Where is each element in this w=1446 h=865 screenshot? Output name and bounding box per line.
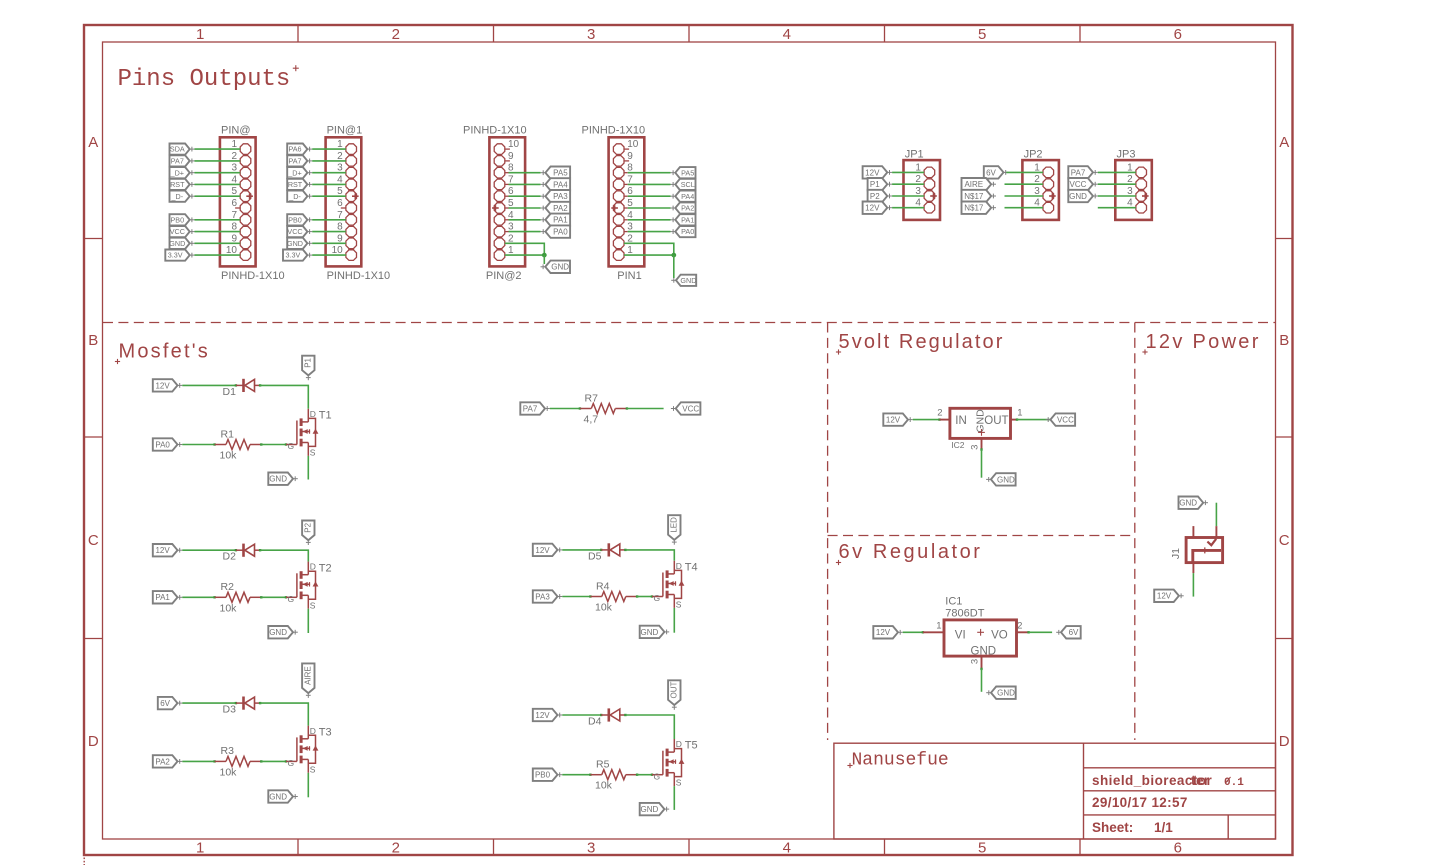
wire 12V to diode D2 <box>182 549 236 551</box>
svg-text:3: 3 <box>587 26 595 43</box>
connector JP2 pin contact dash <box>1045 189 1051 191</box>
net label PA3 at PIN@2 pin 6 <box>545 190 570 202</box>
svg-text:P1: P1 <box>870 180 880 189</box>
connector PIN1 pin circles <box>613 144 624 261</box>
net label 12V at IC1 input <box>873 626 898 638</box>
wire J1 to 12V <box>1192 563 1194 574</box>
connector PIN@2 pin 5 wire cross mark <box>492 207 499 209</box>
connector JP1 pin circles <box>924 167 935 213</box>
title block vertical divider <box>1083 743 1085 839</box>
resistor R4 <box>590 596 601 598</box>
resistor R5 <box>590 774 601 776</box>
svg-text:N$17: N$17 <box>964 204 984 213</box>
svg-text:G: G <box>654 593 661 603</box>
connector JP3 pin circles <box>1136 167 1147 213</box>
net label 12V at T1 drain row <box>153 379 178 391</box>
net label P2 at JP1 pin 3 <box>868 190 888 202</box>
svg-text:AIRE: AIRE <box>304 666 313 685</box>
svg-text:GND: GND <box>269 475 287 484</box>
svg-text:P2: P2 <box>870 192 880 201</box>
dashed section divider vertical left of 5volt regulator <box>827 323 829 741</box>
svg-text:10k: 10k <box>220 602 238 614</box>
net label VCC at IC2 output <box>1050 413 1075 425</box>
wire GND to J1 pin <box>1215 503 1217 526</box>
wire IC2 pin 1 to VCC <box>1011 419 1018 421</box>
diode D5 <box>601 549 609 551</box>
svg-text:T3: T3 <box>319 726 332 738</box>
net label SCL at PIN1 pin 7 <box>675 179 695 190</box>
svg-text:PA5: PA5 <box>681 168 694 177</box>
svg-text:D4: D4 <box>588 715 602 727</box>
wire PA0 to resistor R1 <box>182 444 214 446</box>
diode D4 <box>601 714 609 716</box>
title block outline <box>834 743 1276 839</box>
net label 12V at T5 drain row <box>533 709 558 721</box>
svg-text:GND: GND <box>1069 192 1087 201</box>
wire PA7 to PIN@ pin 2 <box>195 160 241 162</box>
svg-text:T2: T2 <box>319 562 332 574</box>
svg-text:VCC: VCC <box>1057 416 1074 425</box>
wire JP2 pin 2 <box>1005 183 1044 185</box>
net label PA6 at PIN@1 pin 1 <box>287 144 307 155</box>
J1 second pin stub <box>1192 526 1194 537</box>
svg-text:GND: GND <box>997 475 1015 484</box>
net label GND at JP3 pin 3 <box>1068 190 1093 202</box>
svg-text:P1: P1 <box>304 357 313 367</box>
wire diode D4 to T5 drain <box>624 714 626 716</box>
svg-text:T1: T1 <box>319 410 332 422</box>
svg-text:PIN1: PIN1 <box>617 270 641 282</box>
svg-text:GND: GND <box>641 628 659 637</box>
svg-text:6: 6 <box>1174 840 1182 857</box>
svg-text:A: A <box>1279 134 1289 151</box>
svg-text:_D-: _D- <box>288 192 301 201</box>
net label VCC at PIN@ pin 8 <box>170 226 190 237</box>
dashed section divider vertical left of 12v power <box>1134 323 1136 741</box>
connector PIN1 pin 10 stub <box>624 148 629 150</box>
svg-text:R4: R4 <box>596 580 610 592</box>
connector JP1 box <box>904 160 941 220</box>
svg-text:1: 1 <box>196 26 204 43</box>
frame row letters right <box>1279 134 1290 750</box>
net label AIRE above T3 <box>302 663 314 693</box>
wire JP2 pin 3 <box>1005 195 1044 197</box>
svg-text:PA1: PA1 <box>553 216 568 225</box>
svg-text:12V: 12V <box>155 546 170 555</box>
wire 12V to JP1 pin 4 <box>892 207 924 209</box>
svg-text:C: C <box>88 532 99 549</box>
svg-text:VI: VI <box>955 630 966 642</box>
connector JP3 pin 3 wire cross mark <box>1142 195 1149 197</box>
svg-text:B: B <box>1279 332 1289 349</box>
frame column numbers top <box>196 26 1182 43</box>
svg-text:PA3: PA3 <box>535 592 550 601</box>
connector PIN1 pin 5 wire cross mark <box>611 207 618 209</box>
connector PIN1 pin numbers <box>627 139 639 256</box>
svg-text:OUT: OUT <box>670 681 679 698</box>
svg-text:OUT: OUT <box>984 415 1008 427</box>
wire T2 source to GND <box>307 609 309 633</box>
net label N$17 at JP2 pin 4 <box>962 202 992 214</box>
net label GND below T4 <box>640 626 665 638</box>
wire resistor R5 to T5 gate <box>636 774 638 776</box>
connector PIN@1 box <box>326 137 362 266</box>
net label VCC at PIN@1 pin 8 <box>287 226 307 237</box>
wire 12V to IC1 pin 1 <box>903 631 923 633</box>
net label VCC at JP3 pin 2 <box>1068 178 1093 190</box>
net label GND at PIN@ pin 9 <box>170 238 190 249</box>
svg-text:PA2: PA2 <box>681 204 694 213</box>
wire SDA to PIN@ pin 1 <box>195 148 241 150</box>
svg-text:6V: 6V <box>986 168 996 177</box>
transistor T3 <box>286 760 297 762</box>
wire PA7 to resistor R7 <box>550 408 580 410</box>
svg-text:12V: 12V <box>1157 592 1172 601</box>
svg-text:GND: GND <box>680 276 696 285</box>
wire PA6 to PIN@1 pin 1 <box>312 148 346 150</box>
connector PIN@ pin numbers <box>226 139 238 256</box>
wire PIN1 pin 3 to PA0 <box>624 231 628 233</box>
svg-text:D: D <box>1279 733 1290 750</box>
net label PA1 at PIN1 pin 4 <box>675 214 695 225</box>
svg-text:JP1: JP1 <box>905 148 924 160</box>
svg-text:D3: D3 <box>223 704 237 716</box>
wire PIN1 pin 5 to PA2 <box>624 207 628 209</box>
wire T3 source to GND <box>307 773 309 798</box>
svg-text:PA4: PA4 <box>553 180 568 189</box>
svg-text:N$17: N$17 <box>964 192 984 201</box>
connector PIN@2 pin numbers <box>508 139 520 256</box>
svg-text:2: 2 <box>392 840 400 857</box>
svg-text:PIN@1: PIN@1 <box>327 125 363 137</box>
net label PA5 at PIN1 pin 8 <box>675 167 695 178</box>
diode D1 <box>236 384 244 386</box>
wire 3.3V to PIN@ pin 10 <box>195 254 241 256</box>
svg-text:PA2: PA2 <box>155 757 170 766</box>
connector PIN1 box <box>609 137 645 266</box>
wire PIN@2 pin 3 to PA0 <box>505 231 509 233</box>
connector PIN@2 pin circles <box>494 144 505 261</box>
wire 12V to JP1 pin 1 <box>892 171 924 173</box>
svg-text:PB0: PB0 <box>535 771 551 780</box>
svg-text:10k: 10k <box>220 450 238 462</box>
svg-text:R2: R2 <box>221 581 235 593</box>
net label 12V at JP1 pin 4 <box>863 202 888 214</box>
diode D2 <box>236 549 244 551</box>
svg-text:G: G <box>288 441 295 451</box>
svg-text:R1: R1 <box>221 428 235 440</box>
net label 12V at J1 <box>1154 590 1179 602</box>
frame column ticks top <box>298 25 1080 42</box>
svg-text:12v Power: 12v Power <box>1146 331 1261 353</box>
svg-text:PIN@: PIN@ <box>221 125 251 137</box>
connector PIN@ pin 6 stub <box>235 207 240 209</box>
voltage regulator IC2 body <box>950 408 1011 438</box>
wire PIN@2 pin 8 to PA5 <box>505 172 509 174</box>
resistor R2 <box>215 596 226 598</box>
svg-text:VCC: VCC <box>1070 180 1087 189</box>
svg-text:12V: 12V <box>155 381 170 390</box>
net label PA5 at PIN@2 pin 8 <box>545 167 570 179</box>
connector PIN@2 pin 10 stub <box>505 148 510 150</box>
svg-text:3: 3 <box>587 840 595 857</box>
svg-text:G: G <box>288 758 295 768</box>
wire PIN1 pin 2 to junction <box>624 243 674 255</box>
svg-text:PA7: PA7 <box>523 404 538 413</box>
wire GND to JP3 pin 3 <box>1098 195 1136 197</box>
diode D3 <box>236 702 244 704</box>
svg-text:12V: 12V <box>535 711 550 720</box>
svg-text:R7: R7 <box>585 392 599 404</box>
svg-text:5: 5 <box>978 26 986 43</box>
net label SDA at PIN@ pin 1 <box>170 144 190 155</box>
svg-text:1: 1 <box>196 840 204 857</box>
wire PIN1 pin 6 to PA4 <box>624 195 628 197</box>
wire P2 to JP1 pin 3 <box>892 195 924 197</box>
svg-text:D: D <box>310 409 316 419</box>
svg-text:T5: T5 <box>685 740 698 752</box>
net label GND at PIN@2 <box>545 261 570 273</box>
svg-text:6v Regulator: 6v Regulator <box>839 541 983 563</box>
svg-text:PA0: PA0 <box>155 440 170 449</box>
wire PIN1 pin 4 to PA1 <box>624 219 628 221</box>
net label PB0 at PIN@ pin 7 <box>170 214 190 225</box>
svg-text:10k: 10k <box>220 766 238 778</box>
svg-text:D: D <box>310 562 316 572</box>
svg-text:VCC: VCC <box>170 227 185 236</box>
connector PIN@1 pin circles <box>346 144 357 261</box>
svg-text:JP2: JP2 <box>1024 148 1043 160</box>
net label RST at PIN@ pin 4 <box>170 179 190 190</box>
dashed section divider horizontal <box>103 322 1275 324</box>
wire resistor R4 to T4 gate <box>636 595 638 597</box>
wire PB0 to PIN@ pin 7 <box>195 219 241 221</box>
net label PA2 at PIN@2 pin 5 <box>545 202 570 214</box>
J1 switch check mark <box>1207 539 1216 545</box>
svg-text:P2: P2 <box>304 522 313 532</box>
svg-text:PA7: PA7 <box>171 157 184 166</box>
wire GND to PIN@1 pin 9 <box>312 242 346 244</box>
svg-text:D: D <box>88 733 99 750</box>
wire IC2 pin 3 to GND <box>981 438 983 449</box>
svg-text:_D+: _D+ <box>287 168 301 177</box>
svg-text:J1: J1 <box>1170 548 1182 559</box>
title block sheet cell divider <box>1227 815 1229 839</box>
svg-text:PA1: PA1 <box>155 593 170 602</box>
svg-text:GND: GND <box>997 689 1015 698</box>
svg-text:4: 4 <box>783 840 791 857</box>
svg-text:6V: 6V <box>1069 628 1079 637</box>
transistor T4 <box>652 596 663 598</box>
connector PIN@1 pin 6 stub <box>341 207 346 209</box>
net label 12V at IC2 input <box>883 413 908 425</box>
svg-text:PA0: PA0 <box>681 227 694 236</box>
svg-text:PA5: PA5 <box>553 169 568 178</box>
connector JP2 pin numbers <box>1034 162 1040 208</box>
net label 6V at T3 drain row <box>158 697 178 709</box>
svg-text:R5: R5 <box>596 759 610 771</box>
svg-text:10k: 10k <box>595 602 613 614</box>
wire PIN@2 junction down to GND <box>543 255 545 264</box>
wire 12V to diode D1 <box>182 384 236 386</box>
svg-text:C: C <box>1279 532 1290 549</box>
wire 3.3V to PIN@1 pin 10 <box>312 254 346 256</box>
svg-text:PA7: PA7 <box>1071 168 1086 177</box>
net label PA1 at PIN@2 pin 4 <box>545 214 570 226</box>
net label PA3 at T4 gate row <box>533 590 558 602</box>
net label _D+ at PIN@ pin 3 <box>170 167 190 178</box>
wire 12V to diode D5 <box>562 549 601 551</box>
wire P1 to JP1 pin 2 <box>892 183 924 185</box>
net label OUT above T5 <box>668 680 680 705</box>
svg-text:GND: GND <box>269 628 287 637</box>
wire PA7 to PIN@1 pin 2 <box>312 160 346 162</box>
svg-text:PB0: PB0 <box>288 215 302 224</box>
svg-text:JP3: JP3 <box>1117 148 1136 160</box>
wire PIN@2 pin 1 to junction <box>505 254 545 256</box>
net label PA2 at PIN1 pin 5 <box>675 202 695 213</box>
wire PIN@2 pin 7 to PA4 <box>505 183 509 185</box>
net label GND below T2 <box>268 626 293 638</box>
wire T5 source to GND <box>673 786 675 810</box>
svg-text:IC2: IC2 <box>951 440 965 450</box>
svg-text:PINHD-1X10: PINHD-1X10 <box>463 125 527 137</box>
net label 6V at JP2 pin 1 <box>984 166 1004 178</box>
svg-text:PA7: PA7 <box>288 157 301 166</box>
wire _D+ to PIN@ pin 3 <box>195 172 241 174</box>
frame row ticks right <box>1276 239 1294 639</box>
net label PA4 at PIN1 pin 6 <box>675 191 695 202</box>
svg-text:GND: GND <box>287 239 303 248</box>
wire PA3 to resistor R4 <box>562 596 590 598</box>
connector JP3 pin contact dash <box>1138 189 1144 191</box>
connector PIN@2 box <box>489 137 525 266</box>
wire resistor R3 to T3 gate <box>260 760 262 762</box>
wire _D- to PIN@ pin 5 <box>195 195 241 197</box>
svg-text:IN: IN <box>955 415 967 427</box>
svg-text:12V: 12V <box>886 416 901 425</box>
svg-text:2: 2 <box>1017 620 1022 631</box>
svg-text:S: S <box>310 448 316 458</box>
svg-text:PA3: PA3 <box>553 192 568 201</box>
svg-text:2: 2 <box>937 407 942 418</box>
svg-text:S: S <box>310 764 316 774</box>
net label 12V at T4 drain row <box>533 544 558 556</box>
svg-text:G: G <box>288 594 295 604</box>
wire PIN@2 pin 6 to PA3 <box>505 195 509 197</box>
wire PB0 to resistor R5 <box>562 774 590 776</box>
svg-text:GND: GND <box>551 263 569 272</box>
wire PA1 to resistor R2 <box>182 596 214 598</box>
svg-text:AIRE: AIRE <box>964 180 983 189</box>
wire _D- to PIN@1 pin 5 <box>312 195 346 197</box>
wire PA2 to resistor R3 <box>182 760 214 762</box>
wire RST to PIN@ pin 4 <box>195 183 241 185</box>
svg-text:S: S <box>676 600 682 610</box>
svg-text:GND: GND <box>971 645 997 657</box>
wire resistor R2 to T2 gate <box>260 596 262 598</box>
svg-text:7806DT: 7806DT <box>945 607 984 619</box>
svg-text:Nanusefue: Nanusefue <box>852 751 949 771</box>
svg-text:PA4: PA4 <box>681 192 694 201</box>
wire _D+ to PIN@1 pin 3 <box>312 172 346 174</box>
svg-text:Pins Outputs: Pins Outputs <box>118 66 291 93</box>
wire VCC to PIN@1 pin 8 <box>312 231 346 233</box>
connector JP1 pin 3 wire cross mark <box>930 195 937 197</box>
connector PIN@2 pin 9 stub <box>505 160 510 162</box>
svg-text:6: 6 <box>1174 26 1182 43</box>
wire IC1 pin 3 to GND <box>981 656 983 669</box>
svg-text:PIN@2: PIN@2 <box>486 270 522 282</box>
svg-text:3: 3 <box>970 659 981 664</box>
net label 12V at T2 drain row <box>153 544 178 556</box>
svg-text:B: B <box>88 332 98 349</box>
net label _D- at PIN@1 pin 5 <box>287 191 307 202</box>
connector JP3 pin numbers <box>1127 162 1133 208</box>
connector PIN@ pin 5 wire cross mark <box>246 195 253 197</box>
net label AIRE at JP2 pin 2 <box>962 178 992 190</box>
svg-text:ter: ter <box>1191 773 1210 788</box>
net label N$17 at JP2 pin 3 <box>962 190 992 202</box>
wire PIN@2 pin 5 to PA2 <box>505 207 509 209</box>
net label _D- at PIN@ pin 5 <box>170 191 190 202</box>
wire diode D1 to T1 drain <box>259 384 261 386</box>
connector PIN@1 pin numbers <box>332 139 344 256</box>
svg-text:PA0: PA0 <box>553 227 568 236</box>
J1 center pin bar <box>1193 550 1221 562</box>
resistor R3 <box>215 760 226 762</box>
connector PIN@ pin circles <box>240 144 251 261</box>
svg-text:3.3V: 3.3V <box>286 251 301 260</box>
svg-text:VO: VO <box>991 630 1008 642</box>
wire PIN1 junction down to GND <box>673 255 675 278</box>
net label P1 at JP1 pin 2 <box>868 178 888 190</box>
net label PA0 at PIN1 pin 3 <box>675 226 695 237</box>
net label PA4 at PIN@2 pin 7 <box>545 178 570 190</box>
svg-text:IC1: IC1 <box>945 596 962 608</box>
svg-text:VCC: VCC <box>682 404 699 413</box>
net label LED above T4 <box>668 515 680 540</box>
connector JP3 box <box>1115 160 1152 220</box>
junction dot PIN@2 gnd <box>542 253 547 258</box>
svg-text:GND: GND <box>169 239 185 248</box>
svg-text:4,7: 4,7 <box>584 414 599 426</box>
net label RST at PIN@1 pin 4 <box>287 179 307 190</box>
wire resistor R1 to T1 gate <box>260 443 262 445</box>
connector PIN@ pin contact dashes <box>243 189 249 250</box>
svg-text:1: 1 <box>936 620 941 631</box>
wire diode D3 to T3 drain <box>259 702 261 704</box>
svg-text:Sheet:: Sheet: <box>1092 820 1133 835</box>
wire PIN@2 pin 4 to PA1 <box>505 219 509 221</box>
wire T4 source to GND <box>673 608 675 633</box>
svg-text:T4: T4 <box>685 562 698 574</box>
svg-text:3: 3 <box>970 445 981 450</box>
svg-text:D: D <box>676 739 682 749</box>
transistor T5 <box>652 774 663 776</box>
wire PA7 to JP3 pin 1 <box>1098 171 1136 173</box>
connector JP1 pin numbers <box>915 162 921 208</box>
wire T1 source to GND <box>307 456 309 480</box>
svg-text:PINHD-1X10: PINHD-1X10 <box>582 125 646 137</box>
svg-text:PINHD-1X10: PINHD-1X10 <box>221 270 285 282</box>
svg-text:_D-: _D- <box>171 192 184 201</box>
wire 6V to JP2 pin 1 <box>1006 171 1043 173</box>
svg-text:SCL: SCL <box>681 180 695 189</box>
wire VCC to PIN@ pin 8 <box>195 231 241 233</box>
net label PA1 at T2 gate row <box>153 591 178 603</box>
svg-text:PA6: PA6 <box>288 145 301 154</box>
